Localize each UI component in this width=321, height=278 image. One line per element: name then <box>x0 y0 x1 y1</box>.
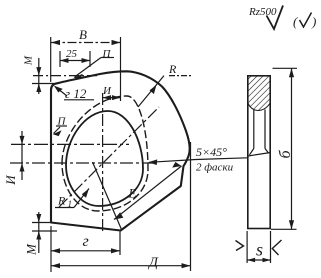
svg-text:5×45°: 5×45° <box>196 145 227 159</box>
svg-text:Д: Д <box>147 256 159 271</box>
svg-text:Rz500: Rz500 <box>248 6 277 18</box>
svg-text:В: В <box>79 27 87 42</box>
svg-text:(: ( <box>293 14 298 29</box>
svg-text:М: М <box>24 243 39 256</box>
svg-text:): ) <box>311 14 316 29</box>
svg-text:2 фаски: 2 фаски <box>196 162 234 174</box>
svg-text:М: М <box>22 55 34 66</box>
svg-text:П: П <box>102 48 112 60</box>
svg-text:25: 25 <box>66 48 78 60</box>
svg-text:И: И <box>3 175 18 186</box>
svg-text:R: R <box>168 62 177 76</box>
svg-text:б: б <box>277 150 294 159</box>
svg-text:г: г <box>83 233 89 250</box>
svg-text:Е: Е <box>128 186 137 201</box>
svg-text:г 12: г 12 <box>65 86 87 101</box>
svg-text:R: R <box>57 194 66 208</box>
svg-text:s: s <box>256 240 263 260</box>
svg-text:И: И <box>102 85 112 97</box>
